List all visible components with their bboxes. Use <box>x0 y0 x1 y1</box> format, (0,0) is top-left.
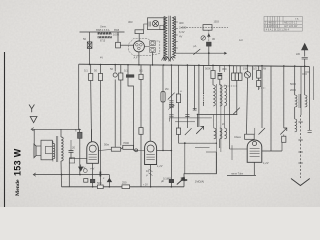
svg-text:μA: μA <box>193 45 197 48</box>
svg-text:0,1: 0,1 <box>84 69 88 73</box>
svg-text:nener Tube: nener Tube <box>231 173 244 176</box>
svg-text:50w: 50w <box>104 143 109 147</box>
svg-text:500: 500 <box>97 181 102 185</box>
svg-text:1W: 1W <box>243 67 247 71</box>
svg-text:I 4 6 A 2 Bl 220 1,2W 4: I 4 6 A 2 Bl 220 1,2W 4 <box>265 29 290 32</box>
svg-text:1003: 1003 <box>214 21 220 24</box>
svg-text:5000: 5000 <box>290 82 296 86</box>
svg-text:220: 220 <box>296 53 301 56</box>
svg-text:+ 2V: + 2V <box>143 185 148 187</box>
svg-text:1,2V: 1,2V <box>263 161 269 165</box>
svg-text:20: 20 <box>72 146 75 150</box>
svg-text:Chass: Chass <box>234 136 242 139</box>
svg-text:0,1: 0,1 <box>139 69 143 73</box>
svg-text:2x300: 2x300 <box>179 26 187 30</box>
svg-text:2M: 2M <box>165 88 168 91</box>
svg-text:2000: 2000 <box>290 88 296 92</box>
svg-text:250: 250 <box>122 181 127 185</box>
svg-text:5000: 5000 <box>205 67 211 71</box>
svg-text:2W: 2W <box>262 67 266 71</box>
svg-text:0,1: 0,1 <box>124 69 128 73</box>
svg-text:6595: 6595 <box>114 30 120 32</box>
svg-text:50: 50 <box>94 69 97 73</box>
svg-text:+4V: +4V <box>90 168 95 171</box>
svg-text:50: 50 <box>110 67 113 71</box>
svg-text:0,1MΩ: 0,1MΩ <box>163 177 171 181</box>
svg-text:400: 400 <box>179 21 184 25</box>
svg-text:Mende: Mende <box>15 179 21 196</box>
svg-text:50: 50 <box>83 37 86 41</box>
svg-text:A-0: A-0 <box>239 39 243 42</box>
svg-text:1MΩ(A): 1MΩ(A) <box>195 180 204 184</box>
svg-text:A F 7: A F 7 <box>134 56 141 60</box>
svg-text:6595 4 6 8 A: 6595 4 6 8 A <box>96 29 110 32</box>
svg-text:153 W: 153 W <box>13 148 23 176</box>
svg-text:16: 16 <box>146 169 149 173</box>
svg-text:1003: 1003 <box>113 33 119 37</box>
svg-text:4V: 4V <box>179 35 182 39</box>
svg-text:300: 300 <box>222 67 227 71</box>
svg-text:4V: 4V <box>100 57 103 60</box>
svg-text:6715: 6715 <box>100 41 106 43</box>
svg-text:1,2V: 1,2V <box>157 164 163 168</box>
svg-text:6 4 2 8 5 2 6: 6 4 2 8 5 2 6 <box>265 25 279 28</box>
svg-text:30: 30 <box>212 37 215 41</box>
svg-text:4V: 4V <box>82 166 85 170</box>
svg-text:0,5: 0,5 <box>253 67 257 71</box>
svg-text:6,3V: 6,3V <box>179 30 185 34</box>
svg-text:AF7 220 4W: AF7 220 4W <box>284 25 298 28</box>
svg-text:ω: ω <box>180 90 182 93</box>
svg-text:7000: 7000 <box>123 141 129 145</box>
svg-text:303: 303 <box>128 20 133 24</box>
